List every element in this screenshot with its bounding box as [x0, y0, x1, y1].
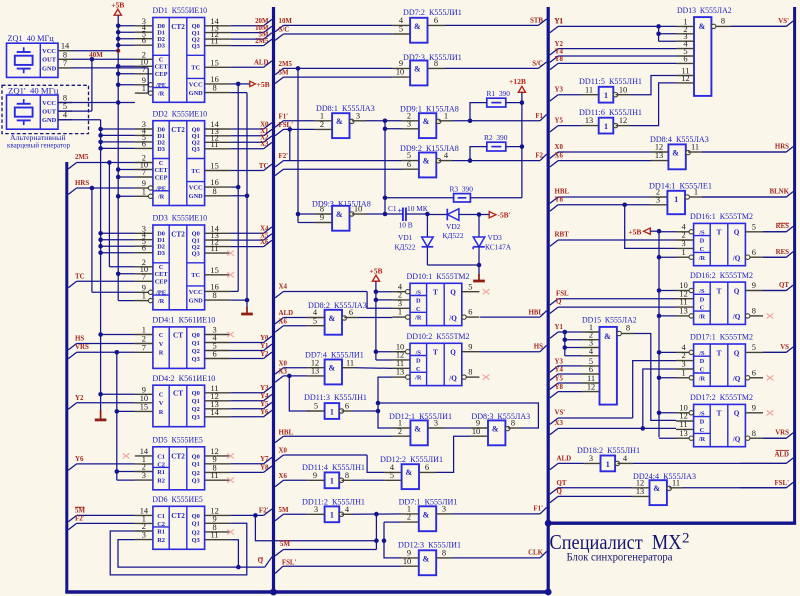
- svg-text:F1': F1': [279, 113, 289, 120]
- svg-text:6: 6: [142, 244, 146, 253]
- svg-text:6: 6: [683, 54, 687, 63]
- svg-text:5: 5: [752, 343, 756, 352]
- svg-text:8: 8: [213, 84, 217, 93]
- svg-text:1: 1: [444, 111, 448, 120]
- svg-text:СТ: СТ: [173, 331, 183, 339]
- svg-text:Q2: Q2: [192, 470, 200, 477]
- svg-text:Q2: Q2: [192, 406, 200, 413]
- svg-text:/S: /S: [415, 289, 422, 296]
- svg-text:ZQ1' 40 МГц: ZQ1' 40 МГц: [8, 85, 59, 95]
- svg-text:DD10:1 К555ТМ2: DD10:1 К555ТМ2: [407, 271, 470, 281]
- svg-text:15: 15: [140, 402, 148, 411]
- svg-text:6: 6: [752, 368, 756, 377]
- svg-text:/Q: /Q: [732, 254, 741, 262]
- svg-text:ALD: ALD: [774, 451, 789, 458]
- svg-text:DD17:1 К555ТМ2: DD17:1 К555ТМ2: [690, 332, 753, 342]
- svg-text:13: 13: [636, 487, 644, 496]
- svg-text:Q: Q: [450, 349, 456, 357]
- svg-text:11: 11: [211, 37, 219, 46]
- svg-text:1: 1: [142, 84, 146, 93]
- svg-text:DD1 К555ИЕ10: DD1 К555ИЕ10: [153, 5, 208, 15]
- svg-text:Y0: Y0: [260, 335, 269, 342]
- svg-text:Q: Q: [258, 558, 264, 565]
- svg-text:D: D: [700, 419, 705, 426]
- svg-text:&: &: [405, 468, 412, 477]
- svg-text:1: 1: [330, 511, 334, 520]
- svg-text:/S: /S: [698, 288, 705, 295]
- svg-text:OUT: OUT: [42, 57, 57, 64]
- svg-text:Y8: Y8: [555, 56, 564, 63]
- svg-text:C: C: [159, 160, 164, 167]
- svg-text:ALD: ALD: [557, 455, 572, 462]
- svg-text:S/C: S/C: [279, 27, 290, 34]
- svg-text:/PE: /PE: [155, 82, 166, 89]
- svg-text:11: 11: [672, 478, 680, 487]
- svg-text:DD16:1 К555ТМ2: DD16:1 К555ТМ2: [690, 211, 753, 221]
- svg-text:3: 3: [398, 299, 402, 308]
- svg-text:CLK: CLK: [528, 550, 544, 557]
- svg-text:2: 2: [142, 335, 146, 344]
- svg-text:5М: 5М: [279, 507, 289, 514]
- svg-text:X3: X3: [260, 141, 269, 148]
- svg-text:DD13 К555ЛА2: DD13 К555ЛА2: [677, 5, 732, 15]
- svg-text:1: 1: [604, 122, 608, 131]
- svg-text:10: 10: [619, 85, 627, 94]
- svg-text:VCC: VCC: [42, 48, 56, 55]
- svg-text:5: 5: [468, 282, 472, 291]
- svg-text:&: &: [604, 332, 611, 341]
- svg-text:7: 7: [142, 65, 146, 74]
- svg-text:Y4: Y4: [555, 366, 564, 373]
- svg-text:/S: /S: [698, 229, 705, 236]
- svg-text:VCC: VCC: [189, 289, 203, 296]
- svg-text:/R: /R: [698, 375, 706, 382]
- svg-text:8: 8: [511, 419, 515, 428]
- svg-text:12: 12: [619, 116, 627, 125]
- svg-text:/R: /R: [698, 314, 706, 321]
- svg-text:/PE: /PE: [155, 290, 166, 297]
- svg-text:GND: GND: [42, 65, 57, 72]
- svg-text:Q3: Q3: [192, 537, 200, 544]
- svg-text:X0: X0: [279, 448, 288, 455]
- svg-text:CT2: CT2: [171, 23, 185, 31]
- svg-text:15: 15: [210, 162, 218, 171]
- svg-text:8: 8: [721, 16, 725, 25]
- svg-text:8: 8: [345, 471, 349, 480]
- svg-text:GND: GND: [42, 117, 57, 124]
- svg-text:VCC: VCC: [42, 100, 56, 107]
- svg-text:Q1: Q1: [192, 521, 200, 528]
- svg-text:C: C: [700, 305, 705, 312]
- svg-text:HRS: HRS: [775, 143, 789, 150]
- svg-text:VD3: VD3: [488, 233, 503, 242]
- svg-text:VS': VS': [555, 410, 566, 417]
- svg-text:CT2: CT2: [171, 126, 185, 134]
- svg-text:DD7:2 К555ЛИ1: DD7:2 К555ЛИ1: [403, 7, 462, 17]
- svg-text:7: 7: [142, 272, 146, 281]
- svg-text:Q0: Q0: [192, 390, 200, 397]
- svg-text:10М: 10М: [279, 18, 293, 25]
- svg-text:C1: C1: [157, 513, 165, 520]
- svg-text:FSL: FSL: [556, 290, 569, 297]
- svg-text:6: 6: [345, 402, 349, 411]
- svg-text:C: C: [416, 306, 421, 313]
- svg-text:Y2: Y2: [555, 41, 564, 48]
- svg-text:TC: TC: [259, 163, 269, 170]
- svg-text:&: &: [336, 117, 343, 126]
- svg-text:Y1: Y1: [260, 343, 269, 350]
- svg-text:13: 13: [655, 151, 663, 160]
- svg-text:/Q: /Q: [448, 374, 457, 382]
- svg-text:/Q: /Q: [732, 313, 741, 321]
- svg-text:Q3: Q3: [192, 43, 200, 50]
- svg-text:C2: C2: [157, 461, 165, 468]
- svg-text:HS: HS: [75, 336, 84, 343]
- svg-text:9: 9: [468, 342, 472, 351]
- svg-text:DD11:2 К555ЛН1: DD11:2 К555ЛН1: [302, 496, 365, 506]
- svg-text:/R: /R: [157, 91, 165, 98]
- svg-text:2М5: 2М5: [255, 38, 269, 45]
- svg-text:DD8:3 К555ЛА3: DD8:3 К555ЛА3: [471, 411, 530, 421]
- svg-text:-5В': -5В': [498, 211, 511, 220]
- svg-text:/S: /S: [698, 410, 705, 417]
- svg-text:DD4:2 К561ИЕ10: DD4:2 К561ИЕ10: [152, 373, 215, 383]
- svg-text:R: R: [159, 350, 164, 357]
- svg-text:2: 2: [320, 120, 324, 129]
- svg-text:C: C: [416, 366, 421, 373]
- svg-text:&: &: [699, 22, 706, 31]
- svg-text:11: 11: [211, 471, 219, 480]
- svg-text:2М5: 2М5: [279, 61, 293, 68]
- svg-text:C2: C2: [157, 521, 165, 528]
- svg-text:Y4: Y4: [555, 48, 564, 55]
- svg-text:Т: Т: [717, 229, 722, 237]
- svg-text:1: 1: [330, 407, 334, 416]
- svg-text:X6: X6: [279, 318, 288, 325]
- svg-text:D: D: [700, 238, 705, 245]
- svg-text:2: 2: [398, 427, 402, 436]
- svg-text:5: 5: [752, 222, 756, 231]
- svg-text:&: &: [423, 554, 430, 563]
- svg-text:OUT: OUT: [42, 109, 57, 116]
- svg-text:QT: QT: [557, 480, 567, 487]
- svg-text:10 МК: 10 МК: [407, 204, 428, 213]
- svg-text:3: 3: [314, 505, 318, 514]
- svg-text:C1: C1: [157, 453, 165, 460]
- svg-text:10: 10: [396, 68, 404, 77]
- svg-text:КД522: КД522: [395, 242, 416, 251]
- svg-text:Y5: Y5: [555, 118, 564, 125]
- svg-text:DD5 К555ИЕ5: DD5 К555ИЕ5: [152, 435, 202, 445]
- svg-text:C: C: [700, 427, 705, 434]
- svg-text:ZQ1 40 МГц: ZQ1 40 МГц: [8, 33, 55, 43]
- svg-text:D: D: [700, 358, 705, 365]
- svg-text:CEP: CEP: [155, 71, 168, 78]
- svg-text:12: 12: [681, 74, 689, 83]
- svg-text:D3: D3: [157, 146, 165, 153]
- svg-text:CT2: CT2: [171, 452, 185, 460]
- svg-text:6: 6: [589, 365, 593, 374]
- svg-text:Т: Т: [433, 289, 438, 297]
- svg-text:R1: R1: [157, 469, 165, 476]
- svg-text:6: 6: [213, 350, 217, 359]
- svg-text:GND: GND: [189, 298, 204, 305]
- svg-text:R1 390: R1 390: [487, 89, 511, 98]
- svg-text:/Q: /Q: [732, 435, 741, 443]
- svg-text:D3: D3: [157, 250, 165, 257]
- svg-text:5М: 5М: [75, 508, 85, 515]
- svg-text:Q0: Q0: [192, 513, 200, 520]
- svg-text:Y6: Y6: [260, 409, 269, 416]
- svg-text:C: C: [159, 332, 164, 339]
- svg-text:6: 6: [407, 160, 411, 169]
- svg-text:9: 9: [320, 213, 324, 222]
- svg-text:кварцевый генератор: кварцевый генератор: [7, 142, 70, 150]
- svg-text:8: 8: [752, 307, 756, 316]
- svg-text:3: 3: [434, 419, 438, 428]
- svg-text:X0: X0: [555, 144, 564, 151]
- svg-text:6: 6: [752, 248, 756, 257]
- svg-text:11: 11: [211, 140, 219, 149]
- svg-text:1: 1: [674, 195, 678, 204]
- svg-text:X6: X6: [555, 153, 564, 160]
- svg-text:9: 9: [313, 471, 317, 480]
- svg-text:Q2: Q2: [192, 348, 200, 355]
- svg-text:Y3: Y3: [555, 87, 564, 94]
- svg-text:3: 3: [407, 119, 411, 128]
- svg-text:Q2: Q2: [192, 529, 200, 536]
- svg-text:6: 6: [142, 36, 146, 45]
- svg-text:5М: 5М: [279, 70, 289, 77]
- svg-text:CET: CET: [155, 167, 169, 174]
- svg-text:7: 7: [142, 343, 146, 352]
- svg-text:5: 5: [399, 25, 403, 34]
- svg-text:1: 1: [604, 91, 608, 100]
- svg-text:Y1: Y1: [555, 324, 564, 331]
- svg-text:TC: TC: [191, 65, 200, 72]
- svg-text:2: 2: [682, 531, 690, 547]
- svg-text:/R: /R: [157, 194, 165, 201]
- svg-text:Q1: Q1: [192, 461, 200, 468]
- svg-text:8: 8: [434, 59, 438, 68]
- svg-text:RBT: RBT: [555, 232, 570, 239]
- svg-text:Y2: Y2: [75, 395, 84, 402]
- svg-text:Y5: Y5: [260, 401, 269, 408]
- svg-text:D: D: [700, 296, 705, 303]
- svg-text:14: 14: [210, 408, 219, 417]
- svg-text:7: 7: [142, 168, 146, 177]
- svg-text:R2: R2: [157, 537, 165, 544]
- svg-text:Q3: Q3: [192, 146, 200, 153]
- svg-text:VRS: VRS: [775, 430, 789, 437]
- svg-text:C: C: [159, 57, 164, 64]
- svg-text:TC: TC: [75, 273, 85, 280]
- svg-text:X6: X6: [279, 473, 288, 480]
- svg-text:Q1: Q1: [192, 340, 200, 347]
- svg-text:12: 12: [587, 383, 595, 392]
- svg-text:Q3: Q3: [192, 251, 200, 258]
- svg-text:Q: Q: [450, 289, 456, 297]
- svg-text:9: 9: [399, 59, 403, 68]
- svg-text:8: 8: [626, 324, 630, 333]
- svg-text:10 В: 10 В: [399, 220, 413, 229]
- svg-text:BLNK: BLNK: [769, 188, 789, 195]
- svg-text:7: 7: [63, 59, 67, 68]
- svg-text:FSL': FSL': [774, 480, 789, 487]
- svg-text:/S: /S: [698, 350, 705, 357]
- svg-text:Блок синхрогенератора: Блок синхрогенератора: [567, 551, 673, 563]
- svg-text:15: 15: [210, 266, 218, 275]
- svg-text:1: 1: [398, 308, 402, 317]
- svg-text:/S: /S: [415, 349, 422, 356]
- svg-text:C: C: [159, 392, 164, 399]
- svg-text:Y8: Y8: [260, 465, 269, 472]
- svg-text:C: C: [159, 264, 164, 271]
- svg-text:Y6: Y6: [75, 456, 84, 463]
- svg-text:R: R: [159, 409, 164, 416]
- svg-text:&: &: [423, 510, 430, 519]
- svg-text:Т: Т: [717, 287, 722, 295]
- svg-text:Q: Q: [734, 410, 740, 418]
- svg-text:/R: /R: [698, 436, 706, 443]
- svg-text:16: 16: [210, 178, 218, 187]
- svg-text:D: D: [416, 358, 421, 365]
- svg-text:&: &: [414, 424, 421, 433]
- svg-text:9: 9: [752, 281, 756, 290]
- svg-text:9: 9: [752, 403, 756, 412]
- svg-text:Y8: Y8: [555, 384, 564, 391]
- svg-text:VS: VS: [780, 344, 789, 351]
- svg-text:3: 3: [656, 195, 660, 204]
- svg-text:&: &: [672, 148, 679, 157]
- svg-text:Y3: Y3: [260, 385, 269, 392]
- svg-text:/PE: /PE: [155, 185, 166, 192]
- svg-text:VRS: VRS: [75, 344, 89, 351]
- svg-text:TC: TC: [191, 272, 200, 279]
- svg-text:VCC: VCC: [189, 81, 203, 88]
- svg-text:3: 3: [589, 454, 593, 463]
- svg-text:Q: Q: [556, 299, 562, 306]
- svg-text:11: 11: [396, 359, 404, 368]
- svg-text:5: 5: [314, 402, 318, 411]
- svg-text:Q: Q: [734, 287, 740, 295]
- svg-text:1: 1: [682, 248, 686, 257]
- svg-text:/R: /R: [157, 298, 165, 305]
- svg-text:+5В: +5В: [257, 80, 270, 89]
- svg-text:8: 8: [213, 187, 217, 196]
- svg-text:DD11:3 К555ЛН1: DD11:3 К555ЛН1: [304, 392, 367, 402]
- svg-text:8: 8: [752, 429, 756, 438]
- svg-text:DD4:1 К561ИЕ10: DD4:1 К561ИЕ10: [152, 315, 215, 325]
- svg-text:VD2: VD2: [446, 222, 461, 231]
- svg-text:CT2: CT2: [171, 231, 185, 239]
- svg-text:/Q: /Q: [448, 314, 457, 322]
- svg-text:Q3: Q3: [192, 414, 200, 421]
- svg-text:Y3: Y3: [555, 358, 564, 365]
- svg-text:2: 2: [407, 513, 411, 522]
- svg-text:1: 1: [330, 477, 334, 486]
- svg-text:X3: X3: [555, 420, 564, 427]
- svg-text:F2': F2': [75, 516, 85, 523]
- svg-text:DD3 К555ИЕ10: DD3 К555ИЕ10: [153, 213, 208, 223]
- svg-text:3: 3: [442, 505, 446, 514]
- svg-text:1: 1: [142, 326, 146, 335]
- svg-text:QT: QT: [779, 282, 789, 289]
- svg-text:TC: TC: [191, 168, 200, 175]
- svg-text:КС147А: КС147А: [485, 242, 512, 251]
- svg-text:VCC: VCC: [189, 185, 203, 192]
- svg-text:GND: GND: [189, 90, 204, 97]
- svg-text:&: &: [492, 424, 499, 433]
- svg-text:8: 8: [468, 368, 472, 377]
- svg-text:DD10:2 К555ТМ2: DD10:2 К555ТМ2: [407, 331, 470, 341]
- svg-text:6: 6: [349, 308, 353, 317]
- svg-text:C: C: [700, 367, 705, 374]
- svg-text:R3 390: R3 390: [450, 184, 474, 193]
- svg-text:10: 10: [354, 205, 362, 214]
- svg-text:VS': VS': [778, 18, 789, 25]
- svg-text:Q0: Q0: [192, 453, 200, 460]
- svg-text:Т: Т: [433, 349, 438, 357]
- svg-text:13: 13: [679, 307, 687, 316]
- svg-text:3: 3: [142, 471, 146, 480]
- svg-text:R2: R2: [157, 478, 165, 485]
- svg-text:5: 5: [390, 471, 394, 480]
- svg-text:Y4: Y4: [260, 393, 269, 400]
- svg-text:3: 3: [142, 531, 146, 540]
- svg-text:&: &: [336, 210, 343, 219]
- svg-text:8: 8: [442, 549, 446, 558]
- svg-text:10: 10: [403, 557, 411, 566]
- svg-text:V: V: [159, 341, 164, 348]
- svg-text:Q: Q: [734, 349, 740, 357]
- svg-text:1: 1: [682, 368, 686, 377]
- svg-text:X6: X6: [260, 239, 269, 246]
- svg-text:1: 1: [606, 460, 610, 469]
- svg-text:Y2: Y2: [260, 351, 269, 358]
- svg-text:6: 6: [142, 139, 146, 148]
- svg-text:&: &: [653, 484, 660, 493]
- svg-text:ALD: ALD: [279, 310, 294, 317]
- svg-text:10: 10: [472, 427, 480, 436]
- svg-text:X0: X0: [279, 360, 288, 367]
- svg-text:Y8: Y8: [555, 196, 564, 203]
- svg-text:HBL: HBL: [279, 430, 294, 437]
- svg-text:DD18:2 К555ЛН1: DD18:2 К555ЛН1: [577, 445, 640, 455]
- svg-text:DD17:2 К555ТМ2: DD17:2 К555ТМ2: [690, 392, 753, 402]
- svg-text:Y7: Y7: [260, 456, 269, 463]
- svg-text:R2 390: R2 390: [484, 133, 508, 142]
- svg-text:Y1: Y1: [555, 18, 564, 25]
- svg-text:5: 5: [313, 316, 317, 325]
- svg-text:X4: X4: [279, 284, 288, 291]
- svg-text:HBL: HBL: [555, 189, 570, 196]
- svg-text:RES: RES: [776, 249, 790, 256]
- svg-text:DD11:4 К555ЛН1: DD11:4 К555ЛН1: [302, 462, 365, 472]
- svg-text:D: D: [416, 298, 421, 305]
- svg-text:13: 13: [585, 116, 593, 125]
- svg-text:Q3: Q3: [192, 478, 200, 485]
- svg-text:R1: R1: [157, 528, 165, 535]
- svg-text:C1: C1: [388, 204, 397, 213]
- svg-text:6: 6: [468, 308, 472, 317]
- svg-text:8: 8: [213, 291, 217, 300]
- svg-text:&: &: [328, 364, 335, 373]
- svg-text:11: 11: [211, 244, 219, 253]
- svg-text:Т: Т: [717, 349, 722, 357]
- svg-text:&: &: [423, 117, 430, 126]
- svg-text:/Q: /Q: [732, 375, 741, 383]
